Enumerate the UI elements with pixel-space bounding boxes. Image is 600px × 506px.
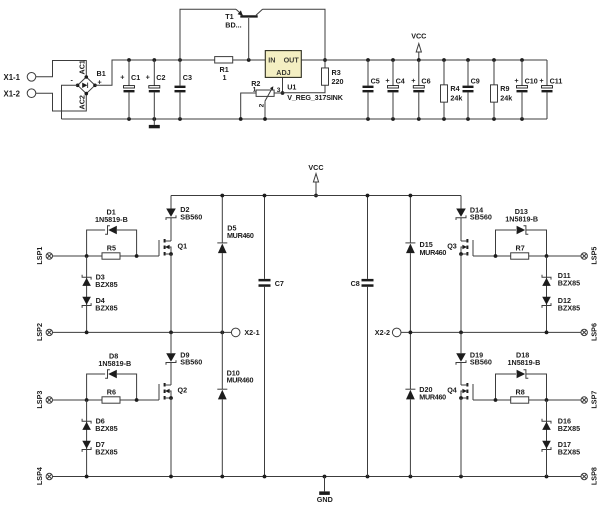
wire zener chain Q2	[86, 400, 88, 477]
terminal LSP6	[581, 329, 587, 335]
junction ground rail x=171	[169, 475, 173, 479]
wire rail to D2	[170, 196, 172, 209]
wire zener chain Q3	[546, 256, 548, 332]
wire D19 to Q4 drain	[460, 363, 462, 386]
svg-text:C6: C6	[421, 77, 430, 86]
wire D20 to ground rail	[409, 399, 411, 476]
ground GND	[324, 477, 326, 492]
svg-text:AC2: AC2	[78, 95, 87, 109]
diode D18	[524, 370, 529, 379]
resistor R4	[441, 85, 448, 102]
wire C8 to ground rail	[367, 287, 369, 477]
wire bridge plus to input rail	[95, 60, 215, 85]
svg-text:VCC: VCC	[411, 31, 426, 40]
wire R3 bottom to ADJ	[283, 85, 326, 93]
terminal LSP5	[581, 253, 587, 259]
junction D1 loop (Q1)	[135, 254, 139, 258]
svg-text:1N5819-B: 1N5819-B	[505, 214, 538, 223]
svg-text:C11: C11	[550, 77, 563, 86]
wire Q2 source to ground	[170, 398, 172, 477]
junction zener chain to output	[85, 331, 89, 335]
resistor R9	[491, 85, 498, 102]
wire output row right	[401, 331, 581, 333]
svg-text:C5: C5	[371, 77, 380, 86]
junction ground rail x=367.5	[366, 475, 370, 479]
transistor Q3	[472, 240, 474, 256]
wire R3 top lead	[324, 60, 326, 68]
junction D5/D10 column output	[220, 331, 224, 335]
svg-text:Q2: Q2	[178, 386, 188, 395]
diode D14	[456, 209, 466, 217]
capacitor C3	[175, 86, 186, 88]
svg-text:LSP3: LSP3	[35, 391, 44, 409]
junction R9 bottom	[492, 117, 496, 121]
svg-text:LSP7: LSP7	[589, 391, 598, 409]
svg-text:BZX85: BZX85	[558, 304, 580, 313]
diode D9	[166, 353, 176, 361]
wire rail to C7	[264, 196, 266, 279]
capacitor C4	[388, 86, 399, 88]
svg-text:SB560: SB560	[180, 213, 202, 222]
svg-text:C4: C4	[396, 77, 405, 86]
wire C3 top lead	[179, 60, 181, 86]
terminal X2-2	[392, 328, 401, 337]
svg-text:BZX85: BZX85	[95, 448, 117, 457]
svg-text:C1: C1	[131, 73, 140, 82]
svg-text:X1-2: X1-2	[4, 89, 21, 98]
svg-text:LSP5: LSP5	[589, 247, 598, 265]
wire R7 to LSP5	[529, 255, 581, 257]
wire C11 top lead	[546, 60, 548, 86]
svg-text:LSP8: LSP8	[589, 467, 598, 485]
capacitor C2	[149, 86, 160, 88]
junction R3 top	[323, 58, 327, 62]
svg-text:OUT: OUT	[284, 56, 300, 65]
svg-text:R8: R8	[516, 388, 525, 397]
wire R1 to U1 IN	[233, 59, 266, 61]
junction ground rail x=410.4	[409, 475, 413, 479]
svg-text:24k: 24k	[500, 94, 512, 103]
junction R2 wiper 0V	[263, 117, 267, 121]
svg-text:+: +	[120, 72, 124, 81]
svg-text:2: 2	[259, 103, 266, 107]
wire R9 bottom lead	[493, 102, 495, 119]
terminal LSP2	[46, 329, 52, 335]
power VCC (bridge)	[313, 174, 318, 182]
svg-text:SB560: SB560	[470, 213, 492, 222]
junction VCC rail	[314, 194, 318, 198]
svg-text:C9: C9	[471, 77, 480, 86]
junction T1 base	[247, 58, 251, 62]
resistor R1	[215, 57, 233, 63]
wire D1 to gate node	[117, 230, 137, 256]
bridge rectifier B1	[78, 77, 95, 94]
wire D10 to ground rail	[221, 399, 223, 476]
svg-text:1N5819-B: 1N5819-B	[98, 359, 131, 368]
junction C2 top	[152, 58, 156, 62]
wire C4 top lead	[392, 60, 394, 86]
wire C4 bottom lead	[392, 92, 394, 119]
svg-text:Q3: Q3	[447, 242, 457, 251]
svg-text:X2-1: X2-1	[244, 328, 259, 337]
junction C4 top	[391, 58, 395, 62]
junction D18 loop (Q4)	[494, 398, 498, 402]
svg-text:VCC: VCC	[308, 163, 323, 172]
capacitor C8	[362, 279, 374, 282]
wire X1-2 to bridge AC2	[36, 93, 87, 111]
wire R4 bottom lead	[443, 102, 445, 119]
svg-text:R4: R4	[450, 84, 459, 93]
svg-text:LSP4: LSP4	[35, 467, 44, 485]
junction C5 top	[366, 58, 370, 62]
wire output row left	[53, 331, 232, 333]
svg-text:X1-1: X1-1	[4, 73, 21, 82]
wire C7 to ground rail	[264, 287, 266, 477]
svg-text:+: +	[146, 72, 150, 81]
wire Q4 source to ground	[460, 398, 462, 477]
junction C6 top	[417, 58, 421, 62]
wire Q4 gate to R8	[473, 399, 511, 401]
transistor T1	[248, 18, 250, 60]
diode D2	[166, 209, 176, 217]
power VCC (supply)	[416, 44, 421, 52]
wire bridge minus to 0V rail	[62, 85, 78, 119]
junction R4 top	[442, 58, 446, 62]
svg-text:U1: U1	[287, 83, 296, 92]
junction zener tap (Q2)	[85, 398, 89, 402]
terminal LSP8	[581, 473, 587, 479]
svg-text:R6: R6	[107, 388, 116, 397]
op-amp U1 regulator body	[265, 51, 301, 78]
diode D4	[82, 303, 91, 308]
diode D11	[542, 275, 551, 280]
wire C1 bottom lead	[128, 92, 130, 119]
wire R9 top lead	[493, 60, 495, 85]
wire C9 top lead	[467, 60, 469, 86]
wire zener chain Q1	[86, 256, 88, 332]
svg-text:+: +	[385, 76, 389, 85]
svg-text:LSP2: LSP2	[35, 323, 44, 341]
wire output to D9	[170, 332, 172, 353]
wire C5 top lead	[367, 60, 369, 86]
transistor Q1	[158, 240, 160, 256]
terminal LSP7	[581, 397, 587, 403]
svg-text:R9: R9	[500, 84, 509, 93]
wire D13 to LSP5 node	[526, 230, 547, 256]
svg-text:+: +	[539, 76, 543, 85]
Q3 source junction	[459, 252, 463, 256]
wire R2 pin3 to ADJ	[274, 92, 283, 94]
Q4 source junction	[459, 396, 463, 400]
junction R9 top	[492, 58, 496, 62]
svg-text:V_REG_317SINK: V_REG_317SINK	[287, 93, 344, 102]
wire D18 to LSP7 node	[526, 374, 547, 400]
capacitor C9	[463, 86, 474, 88]
svg-text:MUR460: MUR460	[420, 248, 447, 257]
terminal LSP1	[46, 253, 52, 259]
svg-text:220: 220	[332, 77, 344, 86]
junction R2 pin1 0V	[239, 117, 243, 121]
wire rail to D14	[460, 196, 462, 209]
svg-text:R3: R3	[332, 68, 341, 77]
svg-text:R7: R7	[516, 244, 525, 253]
svg-text:3: 3	[277, 87, 281, 94]
wire C6 bottom lead	[418, 92, 420, 119]
junction C1 bottom	[127, 117, 131, 121]
svg-text:MUR460: MUR460	[227, 376, 254, 385]
wire R2 pin1 to 0V	[241, 93, 257, 119]
wire zener chain Q4	[546, 400, 548, 477]
junction C10 top	[520, 58, 524, 62]
junction C1 top	[127, 58, 131, 62]
junction ground rail x=222.3	[220, 475, 224, 479]
wire output to D20	[409, 332, 411, 389]
junction C2 bottom	[152, 117, 156, 121]
svg-text:C2: C2	[156, 73, 165, 82]
wire to D1 anode-side	[87, 230, 106, 256]
svg-text:SB560: SB560	[470, 358, 492, 367]
junction C8 rail	[366, 194, 370, 198]
svg-text:BZX85: BZX85	[95, 280, 117, 289]
capacitor C5	[363, 86, 374, 88]
wire to D8 anode-side	[87, 374, 106, 400]
svg-text:1N5819-B: 1N5819-B	[95, 215, 128, 224]
junction ground rail x=86.6	[85, 475, 89, 479]
diode D12	[542, 303, 551, 308]
capacitor C10	[517, 86, 528, 88]
svg-text:BD...: BD...	[225, 21, 241, 30]
terminal X1-2	[27, 89, 36, 98]
wire R2 wiper to 0V	[264, 101, 266, 119]
wire VCC output rail	[301, 59, 547, 61]
svg-text:LSP6: LSP6	[589, 323, 598, 341]
junction D13 loop (Q3)	[494, 254, 498, 258]
wire C11 bottom lead	[546, 92, 548, 119]
junction C9 top	[466, 58, 470, 62]
wire D15 to output	[409, 253, 411, 332]
svg-text:GND: GND	[317, 495, 333, 504]
wire C5 bottom lead	[367, 92, 369, 119]
svg-text:BZX85: BZX85	[95, 424, 117, 433]
wire C10 top lead	[521, 60, 523, 86]
junction zener chain to output (right)	[545, 331, 549, 335]
junction ground rail x=324.5	[323, 475, 327, 479]
wire C2 bottom lead	[153, 92, 155, 119]
wire Q3 source to output	[460, 254, 462, 332]
svg-text:Q4: Q4	[447, 386, 457, 395]
wire LSP3 to R6	[53, 399, 103, 401]
junction ground rail x=546.5	[545, 475, 549, 479]
svg-text:C7: C7	[275, 279, 284, 288]
svg-text:+: +	[514, 76, 518, 85]
wire LSP1 to R5	[53, 255, 103, 257]
diode D13	[524, 226, 529, 235]
diode D17	[542, 447, 551, 452]
wire rail to C8	[367, 196, 369, 279]
svg-text:BZX85: BZX85	[558, 448, 580, 457]
junction C3 bottom	[178, 117, 182, 121]
capacitor C11	[542, 86, 553, 88]
resistor R7	[511, 253, 529, 259]
junction C9 bottom	[466, 117, 470, 121]
wire rail to D15	[409, 196, 411, 243]
junction D5 rail	[220, 194, 224, 198]
junction D15/D20 column output	[409, 331, 413, 335]
junction zener tap (Q4)	[545, 398, 549, 402]
junction D15 rail	[409, 194, 413, 198]
wire C2 top lead	[153, 60, 155, 86]
wire to D13 anode-side	[496, 230, 517, 256]
svg-text:MUR460: MUR460	[419, 393, 446, 402]
junction Q1/Q2 column output	[169, 331, 173, 335]
wire D8 to gate node	[117, 374, 137, 400]
svg-text:MUR460: MUR460	[227, 231, 254, 240]
junction zener tap (Q1)	[85, 254, 89, 258]
wire ground rail	[53, 476, 582, 478]
wire 0V rail	[62, 118, 548, 120]
wire X1-1 to bridge AC1	[36, 61, 87, 78]
junction C4 bottom	[391, 117, 395, 121]
svg-text:C8: C8	[351, 279, 360, 288]
diode D15	[405, 242, 415, 244]
capacitor C6	[413, 86, 424, 88]
svg-text:BZX85: BZX85	[95, 304, 117, 313]
wire Q3 gate to R7	[473, 255, 511, 257]
capacitor C1	[124, 86, 135, 88]
resistor R3	[322, 68, 329, 85]
svg-text:BZX85: BZX85	[558, 279, 580, 288]
diode D7	[82, 447, 91, 452]
diode D3	[82, 275, 91, 280]
wire D5 to output	[221, 253, 223, 332]
svg-text:1: 1	[223, 73, 227, 82]
wire T1 emitter to input rail	[180, 9, 236, 60]
wire to D18 anode-side	[496, 374, 517, 400]
svg-text:BZX85: BZX85	[558, 424, 580, 433]
junction ground rail x=461	[459, 475, 463, 479]
wire R8 to LSP7	[529, 399, 581, 401]
terminal X1-1	[27, 73, 36, 82]
diode D6	[82, 419, 91, 424]
wire Q1 source to output	[170, 254, 172, 332]
junction C3 top	[178, 58, 182, 62]
svg-text:+: +	[411, 76, 415, 85]
svg-text:IN: IN	[268, 56, 275, 65]
junction C10 bottom	[520, 117, 524, 121]
junction R4 bottom	[442, 117, 446, 121]
svg-text:AC1: AC1	[78, 60, 87, 74]
junction C6 bottom	[417, 117, 421, 121]
junction ADJ node	[281, 91, 285, 95]
diode D20	[405, 388, 415, 390]
wire ADJ pin	[282, 77, 284, 93]
junction C5 bottom	[366, 117, 370, 121]
wire output to D10	[221, 332, 223, 389]
svg-text:Q1: Q1	[178, 242, 188, 251]
wire VCC rail of bridge	[171, 195, 461, 197]
svg-text:C3: C3	[183, 73, 192, 82]
capacitor C7	[259, 279, 271, 282]
wire T1 collector to output rail	[263, 9, 326, 60]
svg-text:LSP1: LSP1	[35, 247, 44, 265]
transistor Q2	[158, 384, 160, 400]
svg-text:ADJ: ADJ	[276, 68, 290, 77]
transistor Q4	[472, 384, 474, 400]
diode D5	[217, 242, 227, 244]
wire C10 bottom lead	[521, 92, 523, 119]
ground	[153, 119, 155, 125]
wire C1 top lead	[128, 60, 130, 86]
R2 wiper arrow	[265, 89, 272, 102]
wire D9 to Q2 drain	[170, 363, 172, 386]
wire rail to D5	[221, 196, 223, 243]
svg-text:SB560: SB560	[180, 358, 202, 367]
junction Q3/Q4 column output	[459, 331, 463, 335]
junction C7 rail	[263, 194, 267, 198]
svg-text:C10: C10	[525, 77, 538, 86]
diode D1	[105, 226, 110, 235]
svg-text:1: 1	[253, 87, 257, 94]
junction ground rail x=264.5	[263, 475, 267, 479]
wire C6 top lead	[418, 60, 420, 86]
resistor R5	[102, 253, 120, 259]
resistor R6	[102, 397, 120, 403]
terminal X2-1	[231, 328, 240, 337]
diode D16	[542, 419, 551, 424]
potentiometer R2	[256, 90, 274, 96]
wire R5 to Q1 gate	[120, 255, 159, 257]
wire C3 bottom lead	[179, 92, 181, 119]
Q1 source junction	[169, 252, 173, 256]
wire R6 to Q2 gate	[120, 399, 159, 401]
junction D8 loop (Q2)	[135, 398, 139, 402]
wire R4 top lead	[443, 60, 445, 85]
diode D10	[217, 388, 227, 390]
wire output to D19	[460, 332, 462, 353]
terminal LSP3	[46, 397, 52, 403]
Q2 source junction	[169, 396, 173, 400]
diode D8	[105, 370, 110, 379]
diode D19	[456, 353, 466, 361]
svg-text:X2-2: X2-2	[375, 328, 390, 337]
svg-text:R5: R5	[107, 244, 116, 253]
svg-text:24k: 24k	[450, 94, 462, 103]
wire D2 to Q1 drain	[170, 218, 172, 241]
terminal LSP4	[46, 473, 52, 479]
resistor R8	[511, 397, 529, 403]
wire D14 to Q3 drain	[460, 218, 462, 241]
svg-text:1N5819-B: 1N5819-B	[508, 358, 541, 367]
wire C9 bottom lead	[467, 92, 469, 119]
junction zener tap (Q3)	[545, 254, 549, 258]
